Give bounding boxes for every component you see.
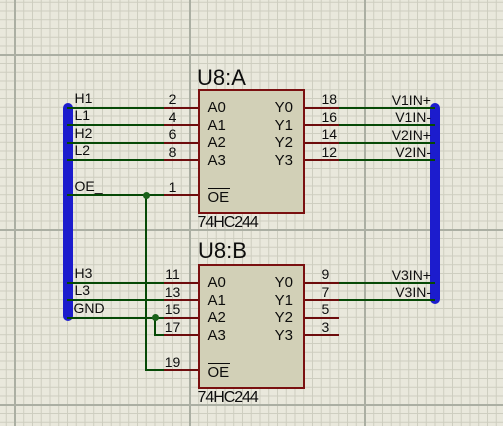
U8:B pin label A1 (208, 293, 226, 308)
U8:A title (197, 67, 246, 89)
U8:B pin label A3 (208, 328, 226, 343)
pin stub U8:B pin 7 (304, 299, 339, 301)
pin number 6 (151, 127, 195, 141)
pin stub U8:B pin 3 (304, 334, 339, 336)
wire H3 to U8:B pin A0 (67, 282, 164, 284)
pin number 1 (151, 180, 195, 194)
op-amp U8:A body (74HC244 buffer block) (198, 89, 305, 214)
net label V1IN+ (311, 93, 431, 107)
bus bar left (blue) (63, 103, 73, 321)
wire U8:A Y0 to V1IN+ (339, 107, 435, 109)
pin stub U8:B pin 17 (164, 334, 199, 336)
pin number 15 (151, 302, 195, 316)
wire U8:A Y3 to V2IN- (339, 159, 435, 161)
wire OE bottom segment to U8:B pin OE (145, 369, 164, 371)
net label H3 (75, 266, 93, 280)
pin number 3 (322, 320, 330, 334)
pin stub U8:B pin 19 (164, 369, 199, 371)
wire U8:A Y2 to V2IN+ (339, 142, 435, 144)
net label GND (74, 301, 105, 315)
U8:B title (198, 240, 247, 262)
junction OE net (143, 192, 150, 199)
pin stub U8:A pin 2 (164, 107, 199, 109)
pin stub U8:A pin 14 (304, 142, 339, 144)
pin stub U8:A pin 4 (164, 124, 199, 126)
pin number 9 (322, 267, 330, 281)
U8:B pin label A2 (208, 310, 226, 325)
pin stub U8:A pin 12 (304, 159, 339, 161)
wire L1 to U8:A pin A1 (67, 124, 164, 126)
U8:A pin label Y3 (250, 153, 293, 168)
wire U8:B Y0 to V3IN+ (339, 282, 435, 284)
U8:B pin label Y0 (250, 275, 293, 290)
U8:B pin label Y3 (250, 328, 293, 343)
net label V3IN- (311, 285, 431, 299)
op-amp U8:B body (74HC244 buffer block) (198, 264, 305, 389)
pin number 8 (151, 145, 195, 159)
U8:A pin label Y1 (250, 118, 293, 133)
pin stub U8:B pin 11 (164, 282, 199, 284)
wire U8:A Y1 to V1IN- (339, 124, 435, 126)
pin stub U8:A pin 1 (164, 194, 199, 196)
bus bar right (blue) (430, 103, 440, 304)
pin number 18 (322, 92, 338, 106)
U8:B pin label A0 (208, 275, 226, 290)
U8:A pin label Y2 (250, 135, 293, 150)
pin number 13 (151, 285, 195, 299)
U8:B pin label OE (active low) (208, 365, 230, 380)
pin stub U8:A pin 18 (304, 107, 339, 109)
U8:A pin label A3 (208, 153, 226, 168)
net label L3 (75, 283, 91, 297)
U8:B pin label Y1 (250, 293, 293, 308)
net label H1 (75, 91, 93, 105)
pin stub U8:B pin 5 (304, 317, 339, 319)
U8:B OE overline (208, 363, 230, 365)
pin number 16 (322, 110, 338, 124)
wire OE to U8:A pin OE (67, 194, 164, 196)
wire L3 to U8:B pin A1 (67, 299, 164, 301)
U8:A OE overline (208, 188, 230, 190)
net label H2 (75, 126, 93, 140)
U8:A pin label A0 (208, 100, 226, 115)
net label V3IN+ (311, 268, 431, 282)
pin number 2 (151, 92, 195, 106)
pin number 17 (151, 320, 195, 334)
U8:B part value 74HC244 (198, 390, 258, 406)
pin stub U8:B pin 13 (164, 299, 199, 301)
wire GND drop to U8:B pin A3 (154, 317, 156, 336)
pin number 14 (322, 127, 338, 141)
pin number 11 (151, 267, 195, 281)
pin stub U8:B pin 15 (164, 317, 199, 319)
wire GND bottom segment to U8:B pin A3 (154, 334, 164, 336)
pin number 7 (322, 285, 330, 299)
wire U8:B Y1 to V3IN- (339, 299, 435, 301)
wire OE vertical drop to U8:B OE (145, 194, 147, 371)
net label L1 (75, 108, 91, 122)
pin number 19 (151, 355, 195, 369)
U8:B pin label Y2 (250, 310, 293, 325)
net label OE_ (75, 179, 103, 193)
wire L2 to U8:A pin A3 (67, 159, 164, 161)
U8:A pin label Y0 (250, 100, 293, 115)
U8:A pin label A2 (208, 135, 226, 150)
junction GND net (152, 314, 159, 321)
net label V1IN- (311, 110, 431, 124)
net label L2 (75, 143, 91, 157)
wire GND to U8:B pin A2 (67, 317, 164, 319)
net label V2IN- (311, 145, 431, 159)
net label V2IN+ (311, 128, 431, 142)
pin stub U8:B pin 9 (304, 282, 339, 284)
U8:A pin label OE (active low) (208, 190, 230, 205)
U8:A part value 74HC244 (198, 215, 258, 231)
wire H1 to U8:A pin A0 (67, 107, 164, 109)
pin number 12 (322, 145, 338, 159)
U8:A pin label A1 (208, 118, 226, 133)
pin stub U8:A pin 6 (164, 142, 199, 144)
pin number 4 (151, 110, 195, 124)
pin number 5 (322, 302, 330, 316)
pin stub U8:A pin 8 (164, 159, 199, 161)
pin stub U8:A pin 16 (304, 124, 339, 126)
wire H2 to U8:A pin A2 (67, 142, 164, 144)
